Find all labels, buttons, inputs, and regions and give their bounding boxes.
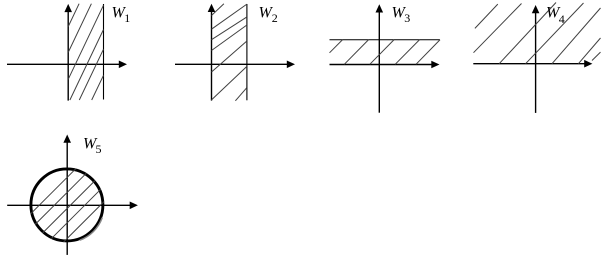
- y-axis W3: [378, 12, 380, 113]
- svg-text:2: 2: [272, 11, 278, 25]
- arrowhead y-axis W4: [532, 5, 540, 13]
- arrowhead x-axis W5: [130, 202, 138, 210]
- circle boundary W5: [31, 169, 103, 241]
- arrowhead y-axis W2: [208, 4, 216, 12]
- hatch lines W2: [212, 4, 247, 101]
- x-axis W1: [7, 63, 120, 65]
- y-axis W4: [535, 12, 537, 113]
- y-axis W2: [211, 11, 213, 101]
- hatch lines W4: [474, 3, 601, 64]
- arrowhead y-axis W1: [64, 4, 72, 12]
- y-axis W5: [66, 142, 68, 255]
- svg-text:3: 3: [404, 11, 410, 25]
- y-axis W1: [67, 11, 69, 101]
- x-axis W5: [7, 204, 130, 206]
- svg-text:5: 5: [96, 142, 102, 156]
- hatch lines W1: [68, 4, 103, 100]
- x-axis W3: [330, 64, 433, 66]
- hatch lines W5 (clipped to circle): [31, 169, 104, 242]
- svg-text:4: 4: [559, 12, 565, 26]
- strip top boundary line W3: [330, 39, 441, 41]
- shadow arc W5: [80, 218, 102, 240]
- arrowhead x-axis W3: [431, 61, 439, 69]
- right boundary line W1: [103, 4, 105, 100]
- arrowhead x-axis W4: [584, 60, 592, 68]
- svg-text:1: 1: [124, 11, 130, 25]
- x-axis W2: [175, 63, 288, 65]
- arrowhead x-axis W1: [119, 61, 127, 69]
- arrowhead y-axis W5: [63, 135, 71, 143]
- right boundary line W2: [246, 4, 248, 100]
- arrowhead x-axis W2: [287, 61, 295, 69]
- arrowhead y-axis W3: [376, 4, 384, 12]
- x-axis W4: [473, 63, 585, 65]
- hatch lines W3: [330, 40, 441, 65]
